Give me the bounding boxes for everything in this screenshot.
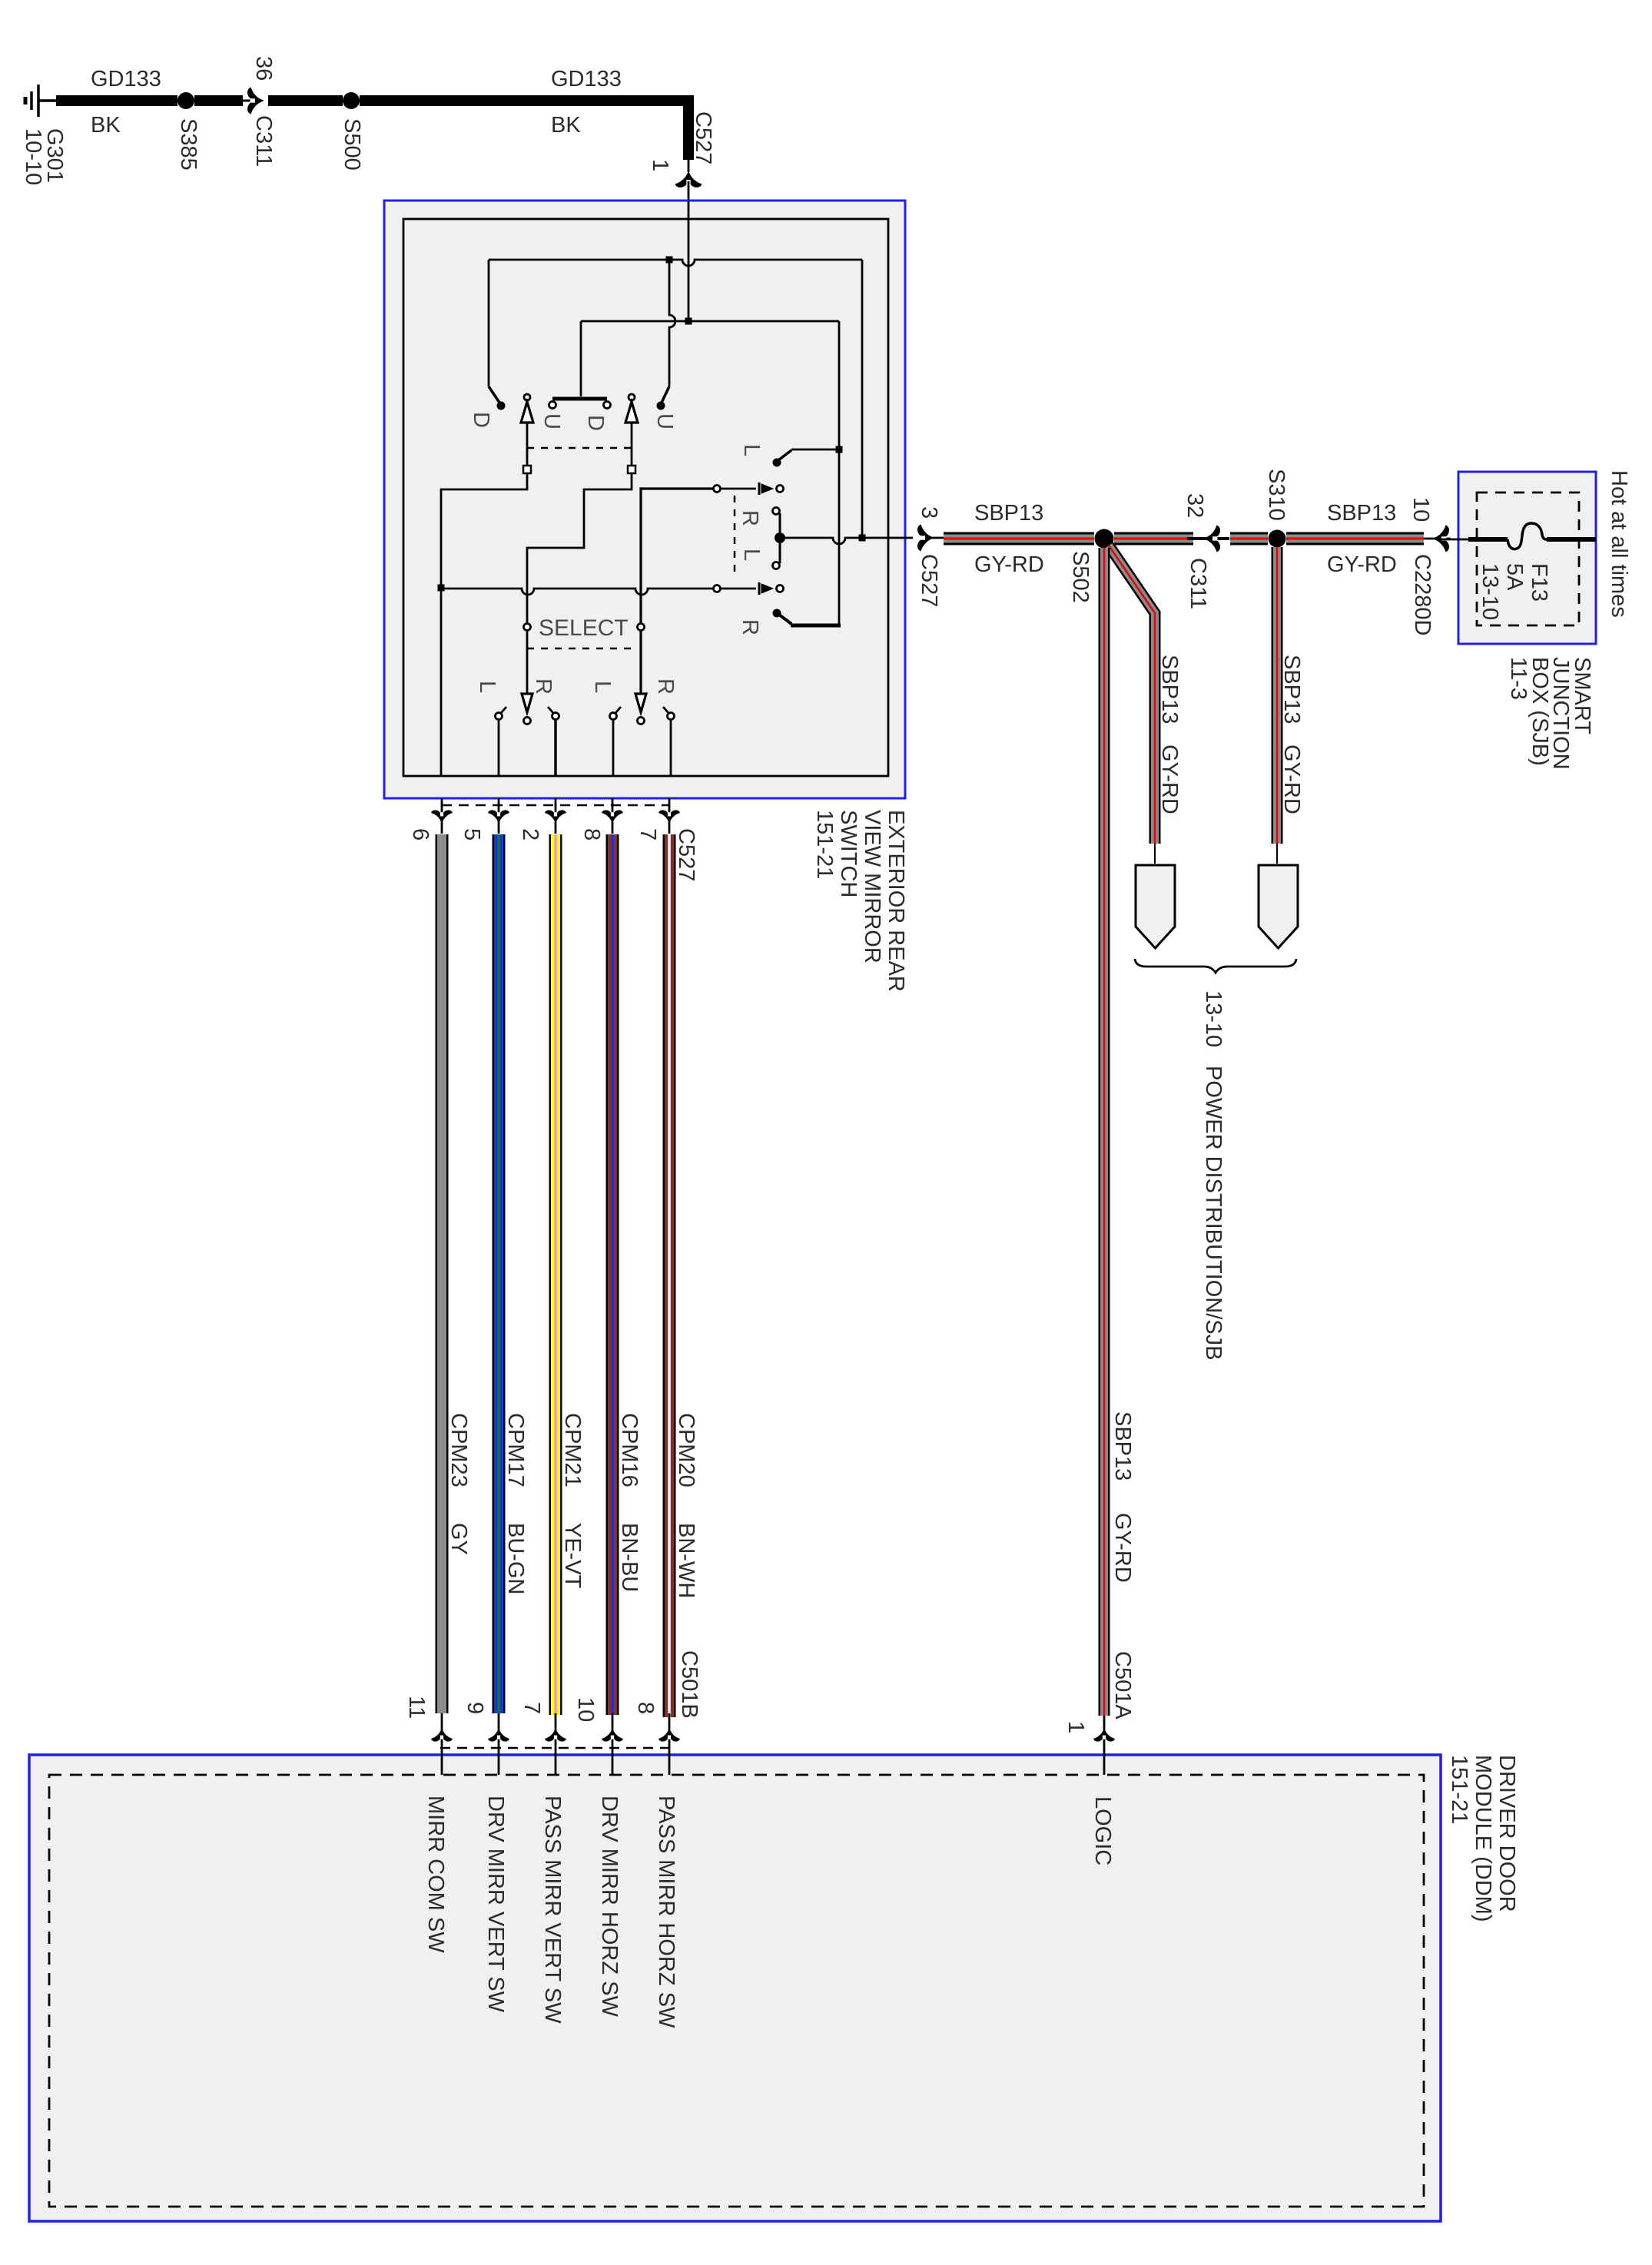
label D (mid-right) — [583, 415, 608, 431]
DDM inner dashed border — [49, 1775, 1424, 2207]
contact circle D — [604, 402, 611, 409]
pin number 6 — [408, 828, 433, 841]
wire color GY-RD (right) — [1327, 552, 1397, 577]
wiper1 arrow — [761, 484, 773, 493]
svg-text:PASS MIRR HORZ SW: PASS MIRR HORZ SW — [654, 1796, 678, 2028]
wire SBP13 S502 diagonal branch — [1109, 546, 1155, 844]
wire label CPM23 — [446, 1413, 471, 1487]
svg-text:F13: F13 — [1527, 563, 1551, 602]
branch label SBP13 (S502) — [1157, 655, 1182, 724]
svg-text:VIEW MIRROR: VIEW MIRROR — [860, 810, 884, 963]
splice S502 — [1095, 529, 1114, 549]
wire SBP13 S310 branch — [1272, 547, 1283, 844]
wire lead inside SJB — [1440, 539, 1468, 541]
wire label CPM20 — [674, 1413, 698, 1487]
wiper2 tip circle — [777, 585, 784, 592]
label U (right) — [652, 413, 677, 429]
select contact L circle — [524, 624, 531, 631]
svg-text:CPM21: CPM21 — [560, 1413, 585, 1487]
lead to terminal 1 — [1154, 844, 1156, 864]
bottom blade thick bar — [791, 624, 841, 628]
connector C501B pin 11 arrow — [431, 1728, 453, 1742]
connector C2280D pin 10 — [1408, 497, 1433, 522]
svg-text:8: 8 — [579, 828, 604, 841]
svg-text:3: 3 — [917, 506, 941, 519]
fuse grid 13-10 — [1478, 563, 1502, 620]
wire GD133 label (left) — [91, 67, 161, 91]
blade1 triangle — [521, 402, 533, 423]
connector pin 32 — [1183, 493, 1207, 518]
svg-text:L: L — [739, 549, 764, 561]
svg-text:GY-RD: GY-RD — [1279, 744, 1304, 814]
wire label CPM17 — [503, 1413, 528, 1487]
svg-text:151-21: 151-21 — [1447, 1755, 1471, 1824]
contact U pivot dot — [657, 402, 665, 410]
svg-text:C501B: C501B — [677, 1650, 702, 1719]
power distribution grid 13-10 — [1201, 990, 1226, 1047]
svg-text:MIRR COM SW: MIRR COM SW — [423, 1796, 448, 1953]
brace for power distribution — [1135, 959, 1296, 973]
DDM name line2 — [1471, 1755, 1495, 1922]
exterior rear view mirror switch box — [384, 201, 905, 798]
pin number 7 (C501B) — [519, 1702, 544, 1714]
wire GD133 color BK (left) — [91, 113, 121, 138]
connector C527 label (top) — [691, 111, 715, 164]
connector C527 pin 3 — [917, 506, 941, 519]
wire pin7 stub to arrow — [668, 798, 671, 834]
label R (upper common) — [738, 510, 762, 526]
fuse F13 designator — [1527, 563, 1551, 602]
blade1 top circle — [524, 394, 530, 400]
blade2 lower contact square — [628, 466, 635, 473]
select coupler dashed — [734, 496, 736, 577]
wire U-branch down — [669, 260, 675, 386]
svg-text:U: U — [652, 413, 677, 429]
wire C527-1 feed inside box — [688, 201, 690, 318]
bottom blade slant — [779, 615, 791, 624]
wire pin7 stub in box — [670, 720, 672, 776]
junction line1 / U-branch — [666, 257, 673, 264]
label LOGIC — [1090, 1796, 1115, 1865]
svg-text:C527: C527 — [674, 828, 698, 881]
svg-text:8: 8 — [633, 1702, 658, 1714]
label L (pin8) — [590, 681, 615, 693]
ground designator G301 — [42, 128, 67, 183]
wire line2 left leg down — [580, 321, 582, 396]
label U (mid-left) — [539, 413, 564, 429]
wire label CPM16 — [617, 1413, 642, 1487]
switch name line1 — [884, 810, 908, 992]
svg-text:DRV MIRR VERT SW: DRV MIRR VERT SW — [483, 1796, 508, 2013]
svg-text:R: R — [738, 510, 762, 526]
svg-text:11-3: 11-3 — [1506, 657, 1531, 700]
connector pin 36 — [251, 56, 276, 81]
SJB fuse dashed border — [1477, 492, 1579, 625]
wire line1 left leg down — [488, 260, 490, 386]
wire into SJB — [1468, 537, 1508, 542]
wire output arrow to GYRD — [925, 537, 944, 539]
common output dot — [775, 532, 785, 543]
select blade right contact — [638, 718, 645, 725]
DDM name line3 — [1447, 1755, 1471, 1824]
svg-text:10: 10 — [573, 1697, 598, 1722]
wire CPM17 BU-GN — [493, 834, 506, 1713]
label R (bottom blade) — [738, 619, 762, 635]
label D (left) — [469, 412, 493, 428]
svg-text:2: 2 — [518, 828, 542, 841]
power distribution terminal (S502 branch) — [1136, 865, 1175, 948]
DDM pin label MIRR COM SW — [423, 1796, 448, 1953]
label L (pin5) — [475, 681, 499, 693]
svg-text:D: D — [469, 412, 493, 428]
connector C501A arrow — [1093, 1728, 1115, 1742]
svg-text:1: 1 — [648, 159, 672, 171]
wire color BU-GN — [503, 1523, 528, 1594]
svg-text:L: L — [475, 681, 499, 693]
SJB name line3 — [1528, 657, 1552, 766]
svg-text:S502: S502 — [1068, 551, 1093, 603]
blade2 triangle — [625, 402, 638, 423]
blade D slant — [489, 386, 499, 403]
wire pin2 stub in box — [554, 720, 557, 776]
svg-text:R: R — [653, 678, 678, 695]
wiper2 link — [721, 588, 756, 590]
ground grid ref 10-10 — [21, 128, 45, 185]
U-D contact bar — [552, 397, 607, 401]
power distribution terminal (S310 branch) — [1259, 865, 1298, 948]
contact L (pin8) — [610, 713, 617, 720]
svg-text:9: 9 — [463, 1702, 487, 1714]
wire color GY-RD (left) — [974, 552, 1044, 577]
switch name line3 — [836, 810, 861, 897]
wire color GY — [446, 1523, 471, 1555]
contact R (pin2) — [552, 713, 559, 720]
svg-text:SBP13: SBP13 — [1157, 655, 1182, 724]
label R (pin2) — [531, 678, 556, 695]
wire CPM21 YE-VT — [549, 834, 562, 1715]
connector C527 label (bottom) — [674, 828, 698, 881]
wire SBP13 S502 to C501A — [1099, 548, 1110, 1716]
top blade horizontal — [791, 449, 839, 451]
wiper2 pivot circle — [714, 585, 721, 592]
wire CPM23 GY — [436, 834, 449, 1713]
wire GD133 segment C311 to S500 — [268, 95, 343, 106]
select-L stem — [526, 631, 529, 694]
svg-text:C527: C527 — [917, 554, 941, 607]
connector C527 pin 6 arrow — [431, 810, 453, 824]
pin number 2 — [518, 828, 542, 841]
svg-text:C501A: C501A — [1110, 1651, 1135, 1719]
wiper1 tip circle — [777, 486, 784, 492]
contact L tick (pin8) — [615, 707, 621, 713]
label L (lower common) — [739, 549, 764, 561]
wire after fuse — [1547, 537, 1596, 542]
wire blade1-net to common — [441, 473, 527, 585]
blade U slant — [662, 386, 669, 403]
connector C501B label — [677, 1650, 702, 1719]
wire color GY-RD (long) — [1110, 1513, 1135, 1583]
svg-text:151-21: 151-21 — [812, 810, 837, 879]
splice S502 label — [1068, 551, 1093, 603]
svg-text:BN-WH: BN-WH — [674, 1523, 698, 1598]
common lower circle — [773, 562, 780, 569]
svg-text:GD133: GD133 — [551, 67, 622, 91]
wire CPM20 BN-WH — [663, 834, 676, 1717]
connector C527 pin 1 arrow — [675, 171, 702, 187]
switch name line4 — [812, 810, 837, 879]
connector C527 pin 2 arrow — [545, 810, 566, 824]
svg-text:DRIVER DOOR: DRIVER DOOR — [1494, 1755, 1519, 1912]
svg-text:DRV MIRR HORZ SW: DRV MIRR HORZ SW — [597, 1796, 622, 2017]
svg-text:GY-RD: GY-RD — [974, 552, 1044, 577]
wire pin9 stub into DDM — [498, 1713, 500, 1775]
connector C527 pin 7 arrow — [658, 810, 680, 824]
wire SBP13 thin at C311 — [1187, 537, 1229, 540]
wire label CPM21 — [560, 1413, 585, 1487]
connector C527 dashed line — [442, 804, 669, 807]
connector C501B pin 10 arrow — [602, 1728, 623, 1742]
svg-text:C527: C527 — [691, 111, 715, 164]
DDM pin label DRV MIRR VERT SW — [483, 1796, 508, 2013]
select blade left contact — [524, 718, 531, 725]
connector C527 pin 8 arrow — [602, 810, 623, 824]
SJB name line2 — [1548, 657, 1573, 770]
svg-text:C311: C311 — [251, 115, 276, 167]
wire C527-1 lead into switch box — [688, 181, 690, 201]
wire color BN-WH — [674, 1523, 698, 1598]
wire pin8 stub in box — [612, 720, 615, 776]
wire output to box edge — [862, 537, 913, 539]
label L (top blade) — [739, 444, 764, 456]
DDM name line1 — [1494, 1755, 1519, 1912]
svg-text:MODULE (DDM): MODULE (DDM) — [1471, 1755, 1495, 1922]
wire lead to C2280D arrow — [1424, 538, 1451, 540]
wire GD133 vertical drop at C527 — [683, 95, 694, 160]
switch name line2 — [860, 810, 884, 963]
connector C501B dashed line — [440, 1747, 676, 1749]
label Hot at all times — [1607, 470, 1631, 618]
connector C527 pin 1 — [648, 159, 672, 171]
wire line1 (upper bus) — [489, 260, 862, 266]
wire line1 right leg — [861, 260, 864, 538]
pin number 11 (C501B) — [404, 1696, 429, 1719]
svg-text:SBP13: SBP13 — [974, 501, 1043, 526]
svg-text:S385: S385 — [176, 118, 201, 171]
pin number 7 — [635, 828, 660, 841]
splice S385 label — [176, 118, 201, 171]
svg-text:BK: BK — [551, 113, 581, 138]
wire pin5 stub in box — [498, 720, 500, 776]
wire pin8 stub to arrow — [612, 798, 614, 834]
pin number 8 — [579, 828, 604, 841]
junction common (pin6 node) — [438, 585, 445, 592]
power distribution label — [1201, 1066, 1226, 1360]
wire GD133 label (right) — [551, 67, 622, 91]
wire GD133 segment S500 to corner — [360, 95, 694, 106]
svg-text:32: 32 — [1183, 493, 1207, 518]
svg-text:CPM17: CPM17 — [503, 1413, 528, 1487]
svg-text:1: 1 — [1063, 1721, 1088, 1733]
wiper1 link — [721, 488, 756, 490]
fuse rating 5A — [1502, 563, 1527, 591]
svg-text:SWITCH: SWITCH — [836, 810, 861, 897]
wire label SBP13 (long) — [1110, 1411, 1135, 1481]
splice S385 — [177, 92, 194, 109]
contact L (pin5) — [496, 713, 503, 720]
svg-text:BK: BK — [91, 113, 121, 138]
top blade pivot — [773, 459, 781, 467]
label SELECT — [539, 615, 629, 641]
svg-text:S500: S500 — [340, 118, 364, 171]
wire color BN-BU — [617, 1523, 642, 1592]
junction output / line1 leg — [859, 535, 866, 542]
select blade right triangle — [635, 694, 646, 712]
branch label SBP13 (S310) — [1279, 655, 1304, 724]
svg-text:GY-RD: GY-RD — [1110, 1513, 1135, 1583]
connector C501A pin 1 — [1063, 1721, 1088, 1733]
connector C527 pin 3 arrow — [917, 525, 934, 552]
svg-text:SBP13: SBP13 — [1279, 655, 1304, 724]
select blade left triangle — [522, 694, 532, 712]
contact D pivot dot — [497, 402, 506, 410]
svg-text:POWER DISTRIBUTION/SJB: POWER DISTRIBUTION/SJB — [1201, 1066, 1226, 1360]
label R (pin7) — [653, 678, 678, 695]
svg-text:R: R — [738, 619, 762, 635]
svg-text:EXTERIOR REAR: EXTERIOR REAR — [884, 810, 908, 992]
wire color YE-VT — [560, 1523, 585, 1589]
svg-text:U: U — [539, 413, 564, 429]
splice S310 — [1269, 530, 1286, 548]
svg-text:BU-GN: BU-GN — [503, 1523, 528, 1594]
branch color GY-RD (S310) — [1279, 744, 1304, 814]
wire common to wiper2 — [441, 589, 713, 595]
wiper2 bar — [758, 582, 761, 595]
wire SBP13 S502 to C311 — [1114, 532, 1193, 546]
wire SBP13 C311 to S310 — [1230, 532, 1268, 546]
blade2 stem — [631, 423, 633, 466]
wire SBP13 S310 to C2280D — [1286, 532, 1424, 546]
switch inner border — [403, 219, 888, 776]
svg-text:10-10: 10-10 — [21, 128, 45, 185]
svg-text:7: 7 — [635, 828, 660, 841]
wire GD133 segment ground to S385 — [56, 95, 177, 106]
svg-text:GY-RD: GY-RD — [1157, 744, 1182, 814]
wire pin6 stub to arrow — [441, 798, 443, 834]
svg-text:R: R — [531, 678, 556, 695]
blade1 stem — [526, 423, 529, 466]
junction C527-1 feed to line2 — [685, 318, 692, 325]
svg-text:Hot at all times: Hot at all times — [1607, 470, 1631, 618]
DDM pin label PASS MIRR VERT SW — [540, 1796, 565, 2024]
fuse F13 element — [1508, 523, 1547, 549]
svg-text:C311: C311 — [1186, 558, 1210, 609]
svg-text:C2280D: C2280D — [1410, 554, 1435, 635]
splice S310 label — [1264, 469, 1289, 521]
connector C501B pin 8 arrow — [658, 1728, 680, 1742]
DDM pin label PASS MIRR HORZ SW — [654, 1796, 678, 2028]
wiper1 bar — [758, 483, 761, 495]
DDM pin label DRV MIRR HORZ SW — [597, 1796, 622, 2017]
SJB name line4 — [1506, 657, 1531, 700]
pin number 5 — [459, 828, 484, 841]
inline connector C311 (SBP13) arrow — [1203, 526, 1220, 552]
svg-text:LOGIC: LOGIC — [1090, 1796, 1115, 1865]
wiper2 arrow — [761, 584, 773, 593]
lead to terminal 2 — [1276, 844, 1278, 864]
wire GD133 segment S385 to C311 — [194, 95, 243, 106]
wire blade2-net to select-L — [527, 473, 632, 623]
wire pin7 stub into DDM — [555, 1713, 557, 1775]
svg-text:D: D — [583, 415, 608, 431]
contact R tick (pin7) — [663, 707, 668, 713]
wire pin5 stub to arrow — [498, 798, 500, 834]
svg-text:GY: GY — [446, 1523, 471, 1555]
SJB name line1 — [1570, 657, 1594, 735]
contact L tick — [501, 707, 506, 713]
wire pin8 stub into DDM — [668, 1713, 671, 1775]
wire SBP13 label (left) — [974, 501, 1043, 526]
svg-text:SELECT: SELECT — [539, 615, 629, 641]
wire common down to pin6 — [440, 588, 443, 776]
wire pin2 stub to arrow — [555, 798, 557, 834]
wire pin10 stub into DDM — [612, 1713, 614, 1775]
U-D mechanical link (dashed) — [527, 447, 632, 449]
connector C501B pin 7 arrow — [545, 1728, 566, 1742]
wire C527-1 lead to arrow — [688, 160, 690, 172]
svg-text:BN-BU: BN-BU — [617, 1523, 642, 1592]
smart junction box (SJB) — [1458, 472, 1596, 644]
svg-text:6: 6 — [408, 828, 433, 841]
connector C2280D arrow — [1432, 526, 1449, 552]
svg-text:5: 5 — [459, 828, 484, 841]
pin number 8 (C501B) — [633, 1702, 658, 1714]
connector C527 pin 5 arrow — [488, 810, 509, 824]
svg-text:5A: 5A — [1502, 563, 1527, 591]
splice S500 label — [340, 118, 364, 171]
wire line2 right leg — [838, 321, 841, 625]
svg-text:7: 7 — [519, 1702, 544, 1714]
wire line2 (lower bus) — [581, 320, 839, 323]
svg-text:13-10: 13-10 — [1478, 563, 1502, 620]
top blade slant — [778, 450, 791, 460]
svg-text:GY-RD: GY-RD — [1327, 552, 1397, 577]
wire GD133 color BK (right) — [551, 113, 581, 138]
connector C311 label (SBP13) — [1186, 558, 1210, 609]
contact R (pin7) — [668, 713, 675, 720]
connector C311 label (GD133) — [251, 115, 276, 167]
wire GD133 thin at C311 — [237, 100, 262, 102]
wire SBP13 label (right) — [1327, 501, 1396, 526]
junction top blade / line2 — [836, 446, 843, 453]
svg-text:CPM20: CPM20 — [674, 1413, 698, 1487]
svg-text:11: 11 — [404, 1696, 429, 1719]
wire SBP13 C527-3 to S502 — [944, 532, 1094, 546]
svg-text:PASS MIRR VERT SW: PASS MIRR VERT SW — [540, 1796, 565, 2024]
connector C501A label — [1110, 1651, 1135, 1719]
ground G301 — [25, 85, 56, 117]
blade2 top circle — [629, 394, 635, 400]
wire output pin3 — [785, 538, 862, 544]
wire wiper1 feed — [641, 489, 713, 693]
svg-text:SBP13: SBP13 — [1327, 501, 1396, 526]
svg-text:CPM16: CPM16 — [617, 1413, 642, 1487]
svg-text:L: L — [590, 681, 615, 693]
svg-text:YE-VT: YE-VT — [560, 1523, 585, 1589]
select contact R circle — [638, 624, 645, 631]
wire C501A lead — [1103, 1716, 1106, 1775]
svg-text:36: 36 — [251, 56, 276, 81]
blade1 lower contact square — [523, 466, 531, 473]
